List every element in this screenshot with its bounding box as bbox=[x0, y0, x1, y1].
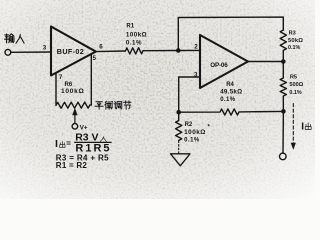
svg-text:50kΩ: 50kΩ bbox=[288, 38, 303, 44]
node A junction R1 / feedback / pin2 bbox=[176, 48, 181, 53]
buffer U1 BUF-02 bbox=[51, 27, 96, 76]
node D junction pin3 / R2 / R4 bbox=[176, 110, 181, 115]
glyph 节 bbox=[124, 101, 131, 109]
glyph 输 bbox=[5, 34, 14, 43]
svg-text:100kΩ: 100kΩ bbox=[61, 88, 84, 95]
svg-text:R3: R3 bbox=[289, 31, 296, 37]
glyph 衡 bbox=[105, 101, 113, 109]
svg-text:6: 6 bbox=[99, 44, 103, 51]
fraction bar bbox=[74, 141, 111, 143]
resistor R5 bbox=[280, 62, 286, 112]
subscript 入 bbox=[100, 137, 106, 142]
label 输入 (input) bbox=[5, 34, 25, 43]
svg-text:=: = bbox=[66, 139, 71, 148]
label 平衡调节 (balance adjust) bbox=[95, 101, 131, 109]
resistor R1 bbox=[125, 48, 178, 54]
potentiometer R6 bbox=[56, 102, 90, 108]
svg-text:0.1%: 0.1% bbox=[126, 40, 142, 47]
svg-text:OP-06: OP-06 bbox=[210, 62, 228, 69]
svg-text:R1 = R2: R1 = R2 bbox=[56, 161, 88, 170]
svg-text:100kΩ: 100kΩ bbox=[126, 31, 147, 38]
wire node C down to output terminal bbox=[282, 111, 284, 153]
svg-text:R1: R1 bbox=[126, 24, 134, 30]
svg-text:7: 7 bbox=[59, 74, 63, 81]
svg-text:BUF-02: BUF-02 bbox=[57, 47, 84, 56]
svg-text:0.1%: 0.1% bbox=[184, 137, 200, 143]
svg-text:0.1%: 0.1% bbox=[288, 45, 300, 51]
node C junction R5 / R4 / output bbox=[281, 109, 286, 114]
pot wiper arrow bbox=[74, 114, 76, 123]
svg-text:I: I bbox=[301, 121, 304, 132]
wire node A to op-amp pin 2 bbox=[178, 49, 200, 51]
svg-text:R1R5: R1R5 bbox=[75, 142, 111, 154]
current direction dashed arrow bbox=[292, 104, 294, 144]
wire op-amp pin 3 to node D bbox=[179, 77, 200, 112]
svg-text:500Ω: 500Ω bbox=[289, 82, 303, 88]
svg-text:R2: R2 bbox=[185, 122, 193, 128]
wire buffer pin 7 down to pot left end bbox=[55, 73, 57, 106]
svg-text:0.1%: 0.1% bbox=[289, 90, 301, 96]
svg-text:0.1%: 0.1% bbox=[220, 97, 236, 103]
output terminal bbox=[280, 153, 287, 160]
wire input to buffer pin 3 bbox=[11, 51, 51, 53]
node B junction op-amp output / R3 / R5 bbox=[281, 59, 286, 64]
wire op-amp output to node B bbox=[248, 61, 283, 63]
glyph 入 bbox=[16, 35, 24, 44]
svg-text:R5: R5 bbox=[290, 75, 297, 81]
svg-text:5: 5 bbox=[93, 55, 97, 62]
resistor R2 bbox=[176, 112, 182, 140]
op-amp U2 OP-06 bbox=[200, 35, 248, 88]
svg-text:3: 3 bbox=[194, 72, 198, 79]
wire buffer output bbox=[96, 50, 126, 53]
svg-text:I: I bbox=[55, 138, 58, 150]
wire feedback top: node A up and right to R3 top bbox=[178, 17, 283, 50]
subscript 出 (output) bbox=[305, 123, 311, 130]
glyph 平 bbox=[95, 102, 103, 110]
svg-text:3: 3 bbox=[43, 45, 47, 52]
resistor R4 bbox=[179, 109, 284, 115]
input terminal bbox=[5, 49, 11, 55]
ground bbox=[171, 154, 191, 166]
subscript 出 bbox=[60, 141, 65, 147]
wire buffer pin 5 down to pot right end bbox=[90, 54, 92, 105]
svg-text:49.5kΩ: 49.5kΩ bbox=[220, 89, 242, 96]
svg-text:2: 2 bbox=[194, 43, 198, 50]
glyph 调 bbox=[114, 101, 122, 109]
svg-text:V+: V+ bbox=[80, 124, 88, 131]
svg-text:100kΩ: 100kΩ bbox=[184, 129, 206, 136]
svg-text:R6: R6 bbox=[65, 82, 73, 88]
wire R2 to ground (dotted in scan) bbox=[178, 141, 180, 153]
svg-text:R4: R4 bbox=[226, 82, 234, 88]
terminal V+ bbox=[72, 124, 78, 130]
resistor R3 bbox=[280, 30, 286, 62]
